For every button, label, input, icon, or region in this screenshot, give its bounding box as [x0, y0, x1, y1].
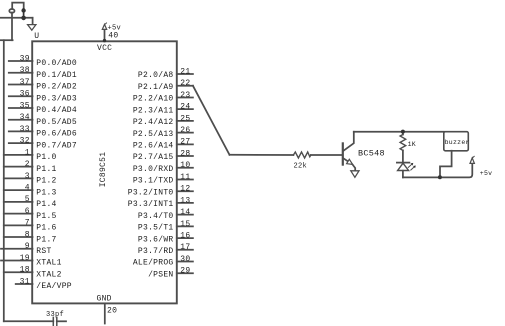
svg-text:P1.2: P1.2 [36, 177, 56, 186]
svg-text:P1.6: P1.6 [36, 224, 56, 233]
svg-text:7: 7 [25, 219, 30, 228]
svg-text:35: 35 [20, 101, 30, 110]
svg-text:P0.6/AD6: P0.6/AD6 [36, 130, 77, 139]
svg-text:+5v: +5v [480, 170, 493, 177]
svg-text:P2.5/A13: P2.5/A13 [133, 130, 174, 139]
svg-text:P3.4/T0: P3.4/T0 [138, 212, 174, 221]
svg-text:28: 28 [180, 149, 190, 158]
svg-text:36: 36 [20, 90, 30, 99]
svg-text:P2.6/A14: P2.6/A14 [133, 142, 174, 151]
svg-text:15: 15 [180, 220, 190, 229]
svg-text:/PSEN: /PSEN [148, 270, 173, 279]
svg-text:11: 11 [180, 173, 190, 182]
svg-text:1: 1 [25, 148, 30, 157]
svg-text:23: 23 [180, 91, 190, 100]
svg-text:33: 33 [20, 125, 30, 134]
svg-text:P0.4/AD4: P0.4/AD4 [36, 106, 77, 115]
svg-text:27: 27 [180, 138, 190, 147]
svg-text:P3.6/WR: P3.6/WR [138, 235, 174, 244]
svg-text:31: 31 [20, 277, 30, 286]
svg-text:P1.1: P1.1 [36, 165, 56, 174]
svg-text:9: 9 [25, 242, 30, 251]
svg-text:2: 2 [25, 160, 30, 169]
svg-text:P3.2/INT0: P3.2/INT0 [128, 188, 174, 197]
svg-text:P2.1/A9: P2.1/A9 [138, 83, 174, 92]
svg-text:P3.7/RD: P3.7/RD [138, 247, 174, 256]
svg-text:13: 13 [180, 196, 190, 205]
svg-text:24: 24 [180, 103, 190, 112]
svg-text:25: 25 [180, 114, 190, 123]
svg-text:P2.0/A8: P2.0/A8 [138, 71, 174, 80]
svg-text:P2.4/A12: P2.4/A12 [133, 118, 174, 127]
svg-text:P3.3/INT1: P3.3/INT1 [128, 200, 174, 209]
svg-text:P1.3: P1.3 [36, 188, 56, 197]
svg-text:U: U [34, 32, 39, 41]
svg-text:34: 34 [20, 113, 30, 122]
svg-text:22k: 22k [294, 163, 307, 171]
svg-text:buzzer: buzzer [445, 139, 470, 146]
svg-text:RST: RST [36, 247, 51, 256]
svg-text:P2.3/A11: P2.3/A11 [133, 106, 174, 115]
svg-text:P1.5: P1.5 [36, 212, 56, 221]
svg-text:3: 3 [25, 172, 30, 181]
svg-text:22: 22 [180, 79, 190, 88]
svg-text:GND: GND [97, 295, 112, 304]
svg-text:XTAL1: XTAL1 [36, 259, 61, 268]
svg-text:ALE/PROG: ALE/PROG [133, 259, 174, 268]
svg-text:P3.1/TXD: P3.1/TXD [133, 177, 174, 186]
svg-text:37: 37 [20, 78, 30, 87]
svg-text:16: 16 [180, 231, 190, 240]
svg-text:BC548: BC548 [358, 149, 385, 159]
svg-text:P2.2/A10: P2.2/A10 [133, 95, 174, 104]
svg-text:17: 17 [180, 243, 190, 252]
svg-text:30: 30 [180, 255, 190, 264]
svg-text:P1.7: P1.7 [36, 235, 56, 244]
svg-text:P1.4: P1.4 [36, 200, 56, 209]
svg-text:32: 32 [20, 137, 30, 146]
svg-text:18: 18 [20, 266, 30, 275]
svg-text:P0.2/AD2: P0.2/AD2 [36, 83, 77, 92]
svg-text:10: 10 [180, 161, 190, 170]
svg-text:20: 20 [107, 306, 117, 315]
svg-text:33pf: 33pf [46, 311, 64, 319]
svg-text:IC89C51: IC89C51 [99, 152, 108, 188]
svg-text:/EA/VPP: /EA/VPP [36, 282, 72, 291]
svg-text:39: 39 [20, 54, 30, 63]
svg-text:19: 19 [20, 254, 30, 263]
svg-text:40: 40 [108, 32, 118, 41]
svg-text:XTAL2: XTAL2 [36, 270, 61, 279]
svg-text:26: 26 [180, 126, 190, 135]
svg-text:38: 38 [20, 66, 30, 75]
svg-text:P3.0/RXD: P3.0/RXD [133, 165, 174, 174]
svg-text:4: 4 [25, 184, 30, 193]
svg-text:5: 5 [25, 195, 30, 204]
svg-text:P3.5/T1: P3.5/T1 [138, 224, 174, 233]
svg-text:6: 6 [25, 207, 30, 216]
svg-text:P0.3/AD3: P0.3/AD3 [36, 94, 77, 103]
svg-text:14: 14 [180, 208, 190, 217]
svg-text:8: 8 [25, 230, 30, 239]
svg-text:P1.0: P1.0 [36, 153, 56, 162]
svg-text:P2.7/A15: P2.7/A15 [133, 153, 174, 162]
svg-text:1K: 1K [408, 141, 416, 148]
svg-text:VCC: VCC [97, 44, 112, 53]
svg-text:29: 29 [180, 267, 190, 276]
svg-text:12: 12 [180, 185, 190, 194]
svg-text:P0.7/AD7: P0.7/AD7 [36, 141, 77, 150]
svg-text:P0.5/AD5: P0.5/AD5 [36, 118, 77, 127]
svg-text:P0.1/AD1: P0.1/AD1 [36, 71, 77, 80]
svg-text:21: 21 [180, 67, 190, 76]
svg-text:P0.0/AD0: P0.0/AD0 [36, 59, 77, 68]
